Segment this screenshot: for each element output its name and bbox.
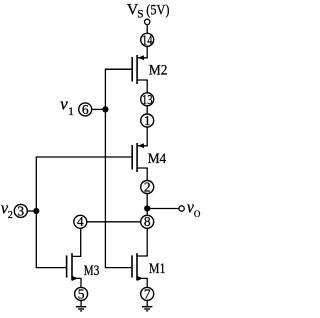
- M3 channel: [71, 253, 73, 280]
- node 3 junction dot: [33, 208, 39, 214]
- node 4: [74, 215, 87, 228]
- M4 gate bar: [131, 145, 133, 170]
- net v2 (node 3 to M4 gate and M3 gate): [36, 157, 131, 268]
- wire node 2 to node 8: [146, 193, 148, 215]
- svg-text:M3: M3: [84, 263, 100, 279]
- node 14: [141, 33, 154, 46]
- node 3: [14, 204, 27, 217]
- M4 source arrow: [138, 143, 144, 148]
- svg-text:2: 2: [8, 210, 13, 221]
- svg-text:4: 4: [77, 214, 84, 229]
- node 7: [141, 287, 154, 300]
- svg-text:6: 6: [82, 102, 89, 117]
- svg-text:8: 8: [144, 214, 151, 229]
- M3 source lead: [72, 278, 81, 287]
- M1 source lead: [137, 278, 147, 287]
- M3 drain lead: [72, 228, 81, 256]
- M1 source arrow: [137, 276, 143, 281]
- transistor M2 (PMOS): [105, 47, 147, 93]
- label VS (5V): [127, 1, 170, 20]
- svg-text:2: 2: [144, 179, 151, 194]
- M3 gate bar: [66, 255, 68, 277]
- wire node 3 to junction: [27, 210, 36, 212]
- node 13: [141, 93, 154, 106]
- net v1 (node 6 to M2 gate and M1 gate): [105, 69, 131, 267]
- transistor M1 (NMOS): [132, 228, 147, 288]
- M2 gate lead: [105, 68, 131, 70]
- svg-text:M1: M1: [149, 261, 166, 277]
- svg-text:1: 1: [144, 113, 151, 128]
- transistor M3 (NMOS): [67, 228, 81, 288]
- M4 source lead: [137, 127, 147, 146]
- wire node 4 to node 8: [87, 221, 141, 223]
- M1 gate bar: [131, 255, 133, 277]
- node 1: [141, 114, 154, 127]
- M3 source arrow: [72, 276, 78, 281]
- node 6 junction dot: [102, 106, 108, 112]
- M1 channel: [136, 253, 138, 280]
- node 6: [79, 103, 92, 116]
- M2 source arrow: [138, 55, 144, 60]
- svg-text:1: 1: [68, 104, 74, 118]
- M4 drain lead: [137, 168, 147, 180]
- label v2: [1, 199, 13, 222]
- label vO: [187, 197, 201, 219]
- svg-text:5: 5: [78, 286, 85, 301]
- wire node 13 to node 1: [146, 106, 148, 115]
- svg-text:14: 14: [142, 33, 153, 48]
- node 8: [141, 215, 154, 228]
- svg-text:13: 13: [142, 93, 153, 108]
- transistor M4 (PMOS): [132, 127, 147, 180]
- ground under node 5: [76, 300, 86, 311]
- wire junction to vO terminal: [147, 208, 179, 210]
- node 2: [141, 181, 154, 194]
- terminal vO: [179, 206, 184, 211]
- M2 drain lead: [137, 80, 147, 93]
- svg-text:(5V): (5V): [146, 2, 169, 18]
- M4 channel: [136, 143, 138, 172]
- M2 gate bar: [131, 57, 133, 82]
- svg-text:M4: M4: [148, 151, 167, 167]
- wire VS terminal to node 14: [146, 25, 148, 34]
- svg-text:3: 3: [17, 203, 24, 218]
- output junction dot: [144, 205, 150, 211]
- node 5: [75, 287, 88, 300]
- svg-text:7: 7: [144, 286, 151, 301]
- label v1: [60, 95, 74, 118]
- M2 source lead: [137, 47, 147, 58]
- terminal VS: [145, 19, 150, 24]
- M1 drain lead: [137, 228, 147, 256]
- M2 channel: [136, 55, 138, 84]
- svg-text:S: S: [137, 8, 143, 20]
- wire node 6 to junction: [92, 108, 106, 110]
- ground under node 7: [142, 300, 152, 311]
- svg-text:M2: M2: [149, 63, 168, 79]
- svg-text:O: O: [194, 209, 201, 219]
